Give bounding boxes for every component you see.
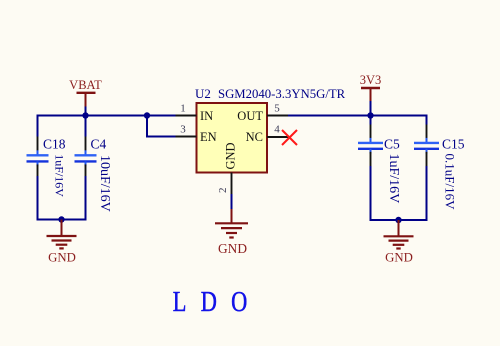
- svg-text:OUT: OUT: [237, 109, 263, 123]
- wire C15 branch top: [426, 115, 428, 125]
- wire EN branch horizontal: [146, 136, 176, 138]
- wire VBAT horizontal to pin IN: [38, 115, 176, 117]
- wire C15 bottom: [426, 166, 428, 220]
- svg-text:O: O: [231, 285, 247, 317]
- svg-text:U2: U2: [195, 86, 211, 101]
- svg-text:C15: C15: [442, 136, 465, 151]
- svg-text:1uF/16V: 1uF/16V: [53, 154, 67, 197]
- junction at EN branch: [144, 112, 150, 118]
- capacitor C18: [27, 136, 67, 197]
- IC U2 voltage regulator SGM2040-3.3YN5G/TR: [195, 86, 346, 173]
- ground symbol right: [384, 220, 414, 249]
- wire C18 bottom: [37, 176, 39, 220]
- title L D O: [173, 285, 247, 317]
- wire C5 bottom: [370, 166, 372, 220]
- capacitor C5: [358, 116, 401, 204]
- svg-text:2: 2: [217, 188, 229, 194]
- svg-text:EN: EN: [200, 130, 217, 144]
- svg-text:10uF/16V: 10uF/16V: [97, 155, 112, 212]
- junction at 3V3 node: [367, 112, 373, 118]
- power port 3V3: [360, 73, 382, 101]
- pin 4 NC: [246, 124, 289, 145]
- junction left ground node: [58, 216, 64, 222]
- power port VBAT: [69, 78, 102, 107]
- junction right ground node: [395, 217, 401, 223]
- capacitor C4: [75, 116, 113, 212]
- svg-text:D: D: [201, 285, 217, 317]
- svg-text:GND: GND: [224, 142, 238, 169]
- wire right bottom rail: [370, 219, 428, 221]
- wire pin2 to ground: [231, 194, 233, 209]
- svg-text:3V3: 3V3: [360, 73, 382, 87]
- svg-text:GND: GND: [48, 251, 76, 265]
- svg-text:GND: GND: [218, 241, 247, 256]
- svg-text:VBAT: VBAT: [69, 78, 102, 92]
- svg-text:L: L: [173, 285, 187, 317]
- svg-text:1uF/16V: 1uF/16V: [386, 154, 401, 204]
- svg-text:0.1uF/16V: 0.1uF/16V: [443, 154, 458, 211]
- pin 1 IN: [176, 103, 214, 124]
- wire OUT to 3V3 rail: [288, 115, 427, 117]
- no-connect X on pin 4: [282, 130, 297, 145]
- svg-text:C5: C5: [384, 136, 400, 151]
- wire C18 branch top: [37, 115, 39, 137]
- svg-text:GND: GND: [385, 251, 413, 265]
- pin 5 OUT: [237, 103, 288, 124]
- wire C4 bottom: [85, 176, 87, 220]
- svg-text:NC: NC: [246, 130, 263, 144]
- ground symbol left: [47, 220, 77, 249]
- wire left bottom rail: [37, 219, 87, 221]
- svg-text:C4: C4: [91, 136, 107, 151]
- wire EN branch vertical: [146, 116, 148, 137]
- wire 3V3 stem to net: [370, 101, 372, 116]
- wire VBAT stem to net: [85, 107, 87, 116]
- junction at VBAT node: [82, 112, 88, 118]
- pin 3 EN: [176, 124, 217, 145]
- svg-text:SGM2040-3.3YN5G/TR: SGM2040-3.3YN5G/TR: [218, 87, 346, 101]
- svg-text:4: 4: [274, 124, 280, 136]
- svg-text:5: 5: [274, 103, 280, 115]
- svg-text:3: 3: [180, 124, 186, 136]
- capacitor C15: [414, 125, 465, 211]
- svg-text:IN: IN: [200, 109, 213, 123]
- pin 2 GND: [217, 142, 238, 194]
- svg-text:C18: C18: [43, 136, 66, 151]
- ground symbol center: [215, 209, 248, 238]
- svg-text:1: 1: [180, 103, 186, 115]
